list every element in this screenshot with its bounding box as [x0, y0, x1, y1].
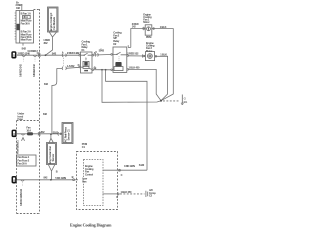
- cooling fan 1 relay label: [82, 40, 91, 52]
- ground G101: [181, 95, 188, 105]
- relay K1 left pins: [79, 54, 81, 56]
- coolant sensor tall box: [47, 143, 57, 165]
- branch hook 2 on row1: [33, 55, 37, 56]
- motor M1: [145, 25, 152, 35]
- relay K1 right pins: [92, 54, 94, 56]
- dashed crossing ticks row1: [38, 54, 40, 57]
- dotted connector grouping line: [63, 57, 65, 67]
- svg-text:Fuse: Fuse: [18, 117, 24, 121]
- svg-text:Motor: Motor: [143, 20, 149, 24]
- PCM label: [82, 142, 87, 149]
- svg-text:Fan 30 A: Fan 30 A: [21, 21, 30, 25]
- row1 wire relay1 to relay2: [94, 54, 111, 57]
- svg-text:0.8 DK GRN 142: 0.8 DK GRN 142: [19, 188, 23, 206]
- svg-text:5 DK GRN: 5 DK GRN: [55, 176, 66, 180]
- inline connector: [95, 53, 98, 56]
- relay K2 top pin stub: [127, 45, 129, 47]
- relay K1 box: [81, 52, 93, 73]
- relay K1 coil: [85, 58, 87, 60]
- A/C pressure sensor tall box: [62, 123, 73, 144]
- wire relay2 top to motor1: [131, 29, 145, 48]
- svg-text:3 DK GRN: 3 DK GRN: [124, 164, 135, 168]
- fuse list inner box: [17, 155, 37, 166]
- svg-text:Fan Module: Fan Module: [52, 16, 56, 29]
- svg-text:10 A: 10 A: [26, 128, 31, 132]
- drop to ground bus: [102, 70, 161, 103]
- fuse block fuse list text: [21, 12, 32, 42]
- svg-text:5: 5: [13, 54, 15, 58]
- battery feed label above fuse block: [16, 0, 23, 10]
- grid connector C (left, row4): [12, 177, 16, 183]
- motor M1 right wire: [152, 29, 174, 101]
- grid connector A (left, row1): [12, 52, 16, 58]
- branch hook row4: [21, 180, 25, 181]
- row2 elbow to long vertical: [52, 68, 57, 134]
- underhood fuse block dashed boundary: [39, 9, 41, 214]
- svg-text:PRM: PRM: [146, 35, 151, 39]
- tall box U1 (underhood electrical center label): [48, 7, 59, 32]
- row2 wire relay1 to relay2: [94, 69, 111, 71]
- svg-text:Engine Cooling Diagram: Engine Cooling Diagram: [70, 223, 112, 228]
- fuse F5 on row3: [27, 132, 33, 135]
- cooling fan 2 relay label: [113, 31, 122, 46]
- svg-text:1 BLK 450: 1 BLK 450: [129, 66, 140, 70]
- underhood fuse block box: [16, 11, 34, 44]
- svg-text:1 BLK: 1 BLK: [160, 52, 167, 56]
- relay K1 contact: [81, 53, 93, 55]
- dashed crossing ticks row3: [38, 132, 40, 135]
- svg-text:0.8 RED 142: 0.8 RED 142: [19, 64, 23, 77]
- grid connector B (left, row3): [12, 130, 16, 136]
- svg-text:1 BLK: 1 BLK: [160, 25, 167, 29]
- svg-text:B42: B42: [52, 52, 57, 56]
- engine cooling fan 2 label: [146, 41, 155, 53]
- svg-text:1 A 842: 1 A 842: [67, 64, 75, 68]
- svg-text:S142: S142: [139, 163, 145, 167]
- svg-text:S142: S142: [99, 48, 105, 52]
- relay K2 contact: [113, 52, 127, 55]
- row2 inline connector: [62, 67, 66, 70]
- svg-text:Sensor C1: Sensor C1: [66, 129, 70, 141]
- funnel below tall box U1: [46, 32, 57, 55]
- connector symbol right: [146, 191, 148, 197]
- fuse block bottom pin stub: [22, 43, 27, 51]
- branch hook 1 on row1: [22, 55, 26, 56]
- row2 wire into relay1: [57, 67, 80, 68]
- ground junction S101: [160, 100, 162, 102]
- relay K2 box: [113, 47, 127, 72]
- svg-text:Maxi Fuse: Maxi Fuse: [21, 38, 32, 42]
- svg-text:30 A: 30 A: [23, 15, 28, 19]
- svg-text:Motor: Motor: [146, 49, 152, 53]
- funnel below sensor: [48, 165, 55, 180]
- lower fuse box dashed boundary: [17, 121, 40, 214]
- svg-text:Fan: Fan: [82, 179, 87, 183]
- motor M2 right wire: [155, 56, 168, 100]
- junction dots row2: [101, 69, 103, 71]
- svg-text:Fan 30 A: Fan 30 A: [18, 162, 27, 166]
- fuse block left pin ticks: [15, 13, 16, 39]
- svg-text:2 RED 532: 2 RED 532: [127, 52, 139, 56]
- PCM lower output wire: [103, 193, 118, 195]
- row2 wire relay2 right: [129, 69, 162, 100]
- branch hook row3: [21, 134, 25, 135]
- drop to fan control bus: [106, 70, 147, 170]
- PCM inner dashed box: [84, 160, 104, 206]
- svg-text:0.8 RED 142: 0.8 RED 142: [32, 64, 36, 77]
- PCM left pin: [73, 179, 75, 181]
- dashed wire to ground: [163, 100, 180, 102]
- row1 wire: [17, 54, 79, 56]
- svg-text:8: 8: [13, 179, 15, 183]
- dashed top edge: [34, 9, 40, 11]
- svg-text:Sensor: Sensor: [51, 154, 55, 162]
- lower fuse box label: [18, 112, 25, 122]
- wire relay2 to motor2: [129, 55, 146, 57]
- svg-text:Control: Control: [85, 172, 93, 176]
- motor1 pin bracket: [142, 27, 145, 30]
- svg-text:1 BLK 450: 1 BLK 450: [121, 190, 132, 194]
- svg-text:B42: B42: [22, 47, 27, 51]
- svg-text:B Fan 1 A: B Fan 1 A: [21, 12, 31, 16]
- inline connector on row1: [62, 54, 66, 57]
- junction S102: [45, 54, 47, 56]
- row3 wire: [17, 133, 62, 135]
- svg-text:Fuse Block 2: Fuse Block 2: [16, 140, 20, 154]
- pin into sensor box: [57, 132, 60, 135]
- row4 wire: [17, 179, 74, 181]
- relay K2 right pins: [127, 55, 129, 57]
- junction dot sensor/row4: [50, 179, 52, 181]
- svg-text:8: 8: [13, 133, 15, 137]
- engine cooling fan 1 label: [143, 12, 152, 24]
- PCM outer dashed box: [77, 152, 118, 210]
- PCM upper output wire: [103, 169, 148, 171]
- stub junction to sensor2: [49, 134, 53, 142]
- relay K2 left pins: [111, 54, 113, 56]
- relay K2 coil dark blob: [115, 62, 121, 66]
- junction S103: [50, 134, 52, 136]
- PCM inner text: [85, 164, 94, 176]
- motor M2: [145, 52, 154, 61]
